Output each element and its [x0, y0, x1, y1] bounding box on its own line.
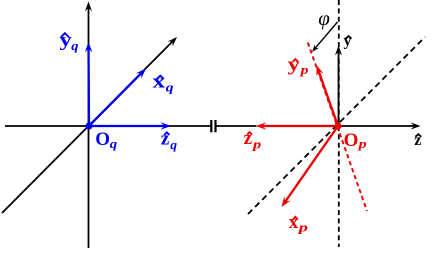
svg-text:p: p: [357, 136, 367, 151]
svg-text:φ: φ: [318, 6, 330, 30]
svg-text:q: q: [71, 38, 79, 53]
svg-text:O: O: [95, 129, 110, 150]
svg-text:q: q: [170, 137, 177, 152]
svg-text:z: z: [244, 128, 253, 149]
svg-text:q: q: [110, 136, 118, 151]
svg-text:y: y: [344, 33, 352, 50]
svg-text:p: p: [252, 137, 262, 152]
svg-text:x: x: [153, 72, 166, 93]
svg-text:y: y: [288, 55, 301, 76]
svg-text:x: x: [289, 212, 299, 233]
svg-text:q: q: [166, 80, 174, 95]
svg-text:O: O: [344, 130, 359, 151]
svg-text:p: p: [299, 62, 309, 77]
svg-text:p: p: [297, 220, 308, 235]
svg-text:z: z: [161, 129, 170, 150]
